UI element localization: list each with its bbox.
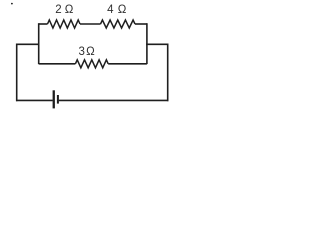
wire right connector [146,43,168,45]
wire left outer rail [16,44,18,102]
wire top-left stub [39,23,48,25]
battery short plate [57,95,59,104]
svg-text:2 Ω: 2 Ω [55,4,74,16]
resistor 3Ω [75,60,108,68]
svg-text:4 Ω: 4 Ω [107,4,127,16]
wire 3Ω left [39,63,76,65]
stray dot [11,3,13,5]
wire 3Ω right [108,63,147,65]
wire right outer rail [167,44,169,102]
wire top-right stub [135,23,147,25]
wire bottom right [59,99,169,101]
node right rail [146,23,148,64]
resistor 4Ω [101,20,136,28]
battery long plate [53,90,55,108]
node left rail [38,23,40,64]
wire bottom left [16,99,53,101]
svg-text:3 Ω: 3 Ω [79,46,96,58]
wire between 2Ω and 4Ω [80,23,101,25]
wire left connector [17,43,40,45]
resistor 2Ω [48,20,81,28]
